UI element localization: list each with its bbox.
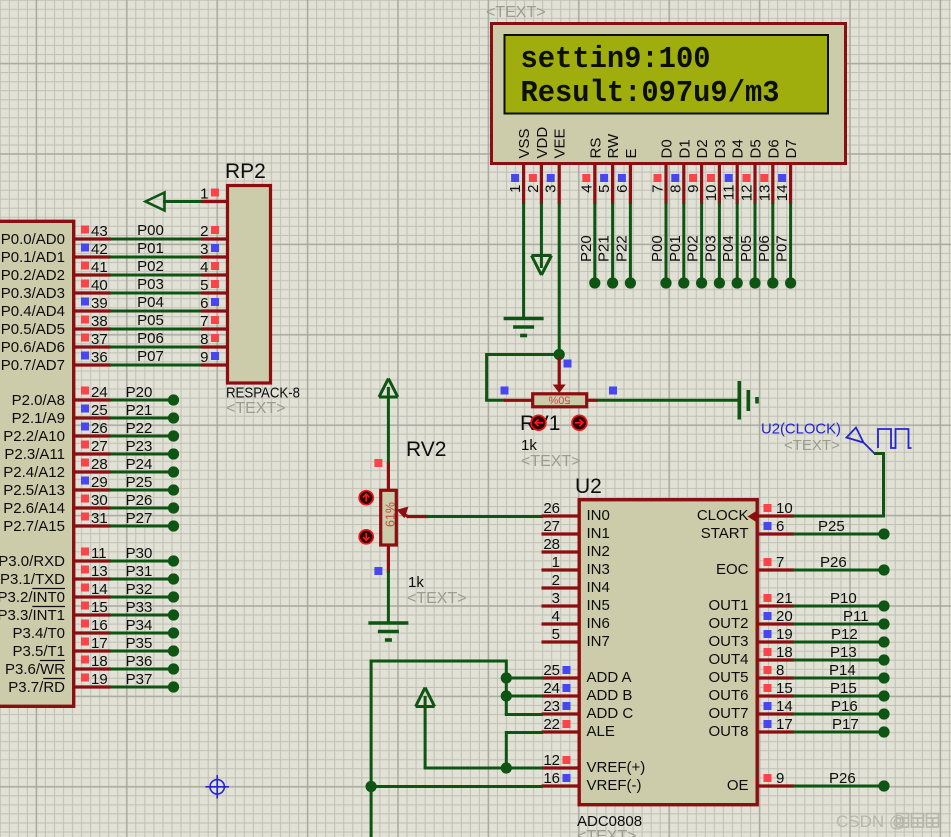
svg-text:P14: P14 (829, 662, 856, 679)
svg-text:RW: RW (605, 133, 622, 159)
wire branch to U2 ADD B (505, 695, 543, 698)
wire net P02 from U1 pin 41 to RP2 pin 4 (110, 258, 202, 275)
U1 pin 14 (P3.2/INT0) (0, 581, 111, 606)
svg-text:P07: P07 (137, 348, 164, 365)
svg-text:1: 1 (507, 185, 524, 193)
U1 pin 41 (P0.2/AD2) (1, 259, 111, 284)
U2 pin 2 (IN4) (542, 572, 610, 596)
wire RP2 pin 1 with input terminal arrow (146, 193, 203, 211)
RP2 pin 2 (200, 223, 226, 240)
svg-text:CSDN @: CSDN @ (836, 812, 906, 831)
wire end junction P32 (168, 591, 179, 602)
LCD module LCD1 body (492, 24, 846, 164)
U2 pin 7 (EOC) (716, 554, 794, 578)
wire LCD pin 7 to net P00 (649, 203, 666, 279)
svg-text:13: 13 (91, 563, 108, 580)
svg-text:ADD A: ADD A (587, 669, 632, 686)
svg-text:OUT1: OUT1 (708, 597, 748, 614)
wire LCD pin 9 to net P02 (685, 203, 702, 279)
resistor pack RP2 body (228, 186, 271, 384)
RP2 pin 7 (200, 313, 226, 330)
U2 pin 9 (OE) (727, 770, 794, 794)
svg-text:17: 17 (776, 716, 793, 733)
wire end junction P14 (U2 OUT5) (878, 672, 889, 683)
svg-text:16: 16 (91, 617, 108, 634)
U2 pin 16 (VREF(-)) (542, 770, 642, 794)
svg-text:12: 12 (543, 752, 560, 769)
svg-text:<TEXT>: <TEXT> (407, 590, 467, 607)
RP2 pin 5 (200, 277, 226, 294)
svg-text:12: 12 (739, 185, 756, 202)
power terminal (VREF+, pointing up) (416, 688, 435, 707)
wire end junction P03 (714, 277, 725, 288)
svg-text:P0.4/AD4: P0.4/AD4 (1, 303, 65, 320)
wire net P35 from U1 pin 17 (110, 635, 170, 652)
wire net P16 from U2 pin 14 (793, 698, 879, 715)
wire net P17 from U2 pin 17 (793, 716, 879, 733)
wire clock generator to U2 CLOCK pin (793, 452, 885, 516)
svg-text:17: 17 (91, 635, 108, 652)
svg-text:P0.0/AD0: P0.0/AD0 (1, 231, 65, 248)
U2 pin 27 (IN1) (542, 518, 610, 542)
svg-text:1: 1 (200, 186, 208, 203)
LCD pin 14 (D7) (774, 139, 800, 204)
svg-text:P3.2/INT0: P3.2/INT0 (0, 589, 65, 606)
RP2 pin 6 (200, 295, 226, 312)
svg-text:P2.6/A14: P2.6/A14 (3, 500, 65, 517)
svg-text:D4: D4 (730, 139, 747, 158)
U2 pin 10 (CLOCK) (697, 500, 794, 524)
svg-text:27: 27 (91, 438, 108, 455)
wire net P07 from U1 pin 36 to RP2 pin 9 (110, 348, 202, 365)
U1 pin 15 (P3.3/INT1) (0, 599, 111, 624)
LCD pin 13 (D6) (756, 139, 782, 204)
svg-text:IN3: IN3 (587, 561, 610, 578)
wire LCD pin 6 to net P22 (613, 203, 630, 279)
svg-text:4: 4 (200, 259, 208, 276)
svg-text:P0.5/AD5: P0.5/AD5 (1, 321, 65, 338)
U1 pin 18 (P3.6/WR) (5, 653, 111, 678)
ground (RV1, rotated right) (739, 381, 757, 420)
svg-text:EOC: EOC (716, 561, 749, 578)
svg-text:CLOCK: CLOCK (697, 507, 749, 524)
svg-text:P05: P05 (137, 312, 164, 329)
svg-text:8: 8 (776, 662, 784, 679)
svg-text:D2: D2 (694, 139, 711, 158)
svg-text:P04: P04 (720, 235, 737, 262)
svg-text:14: 14 (774, 185, 791, 202)
svg-text:P0.7/AD7: P0.7/AD7 (1, 357, 65, 374)
svg-text:RP2: RP2 (225, 160, 266, 183)
LCD pin 11 (D4) (721, 139, 747, 204)
wire net P24 from U1 pin 28 (110, 456, 170, 473)
wire net P26 from U2 pin 9 (793, 770, 879, 787)
svg-text:P33: P33 (126, 599, 153, 616)
svg-text:8: 8 (667, 185, 684, 193)
RP2 pin 1 (200, 186, 226, 203)
svg-text:P3.1/TXD: P3.1/TXD (0, 571, 65, 588)
svg-text:1k: 1k (408, 574, 424, 591)
wire end junction P24 (168, 466, 179, 477)
wire LCD pin 2 (VDD) to power (540, 203, 543, 256)
svg-text:61%: 61% (383, 502, 397, 527)
U1 pin 30 (P2.6/A14) (3, 492, 111, 517)
svg-text:P21: P21 (596, 235, 613, 262)
RV2 down button (359, 530, 373, 544)
svg-text:D3: D3 (712, 139, 729, 158)
U1 pin 38 (P0.5/AD5) (1, 313, 111, 338)
svg-text:P34: P34 (126, 617, 153, 634)
svg-text:9: 9 (200, 349, 208, 366)
svg-text:28: 28 (91, 456, 108, 473)
LCD screen (505, 35, 829, 114)
RP2 pin 4 (200, 259, 226, 276)
U2 pin 19 (OUT3) (708, 626, 794, 650)
svg-text:P00: P00 (649, 235, 666, 262)
U1 pin 31 (P2.7/A15) (3, 510, 111, 535)
svg-text:P2.1/A9: P2.1/A9 (12, 410, 65, 427)
wire net ADD bus: top run (370, 660, 507, 837)
wire net P12 from U2 pin 19 (793, 626, 879, 643)
svg-text:2: 2 (525, 185, 542, 193)
wire net P25 from U1 pin 29 (110, 474, 170, 491)
svg-text:P23: P23 (126, 438, 153, 455)
wire vertical to ADD pins (505, 660, 508, 715)
svg-text:P2.2/A10: P2.2/A10 (3, 428, 65, 445)
svg-text:P30: P30 (126, 545, 153, 562)
svg-text:VEE: VEE (552, 128, 569, 158)
svg-text:11: 11 (91, 545, 107, 562)
svg-text:D6: D6 (765, 139, 782, 158)
svg-text:P11: P11 (843, 608, 869, 625)
svg-text:P17: P17 (832, 716, 859, 733)
svg-text:19: 19 (776, 626, 793, 643)
svg-text:IN1: IN1 (587, 525, 610, 542)
wire end junction P06 (767, 277, 778, 288)
svg-text:23: 23 (543, 698, 560, 715)
U1 pin 16 (P3.4/T0) (12, 617, 111, 642)
svg-text:43: 43 (91, 223, 108, 240)
U1 pin 25 (P2.1/A9) (12, 402, 111, 427)
svg-text:E: E (623, 148, 640, 158)
wire net P25 from U2 pin 6 (793, 518, 879, 535)
wire LCD pin 13 to net P06 (756, 203, 773, 279)
clock generator symbol (847, 428, 912, 454)
svg-text:P37: P37 (126, 671, 153, 688)
power terminal (RV2 top, pointing up) (379, 379, 398, 398)
wire LCD pin 12 to net P05 (738, 203, 755, 279)
wire net P33 from U1 pin 15 (110, 599, 170, 616)
wire end junction P11 (U2 OUT2) (878, 618, 889, 629)
potentiometer RV2 body (381, 490, 397, 545)
wire branch to U2 ADD C (505, 713, 543, 716)
svg-text:9: 9 (776, 770, 784, 787)
svg-text:24: 24 (91, 384, 108, 401)
LCD pin 12 (D5) (739, 139, 765, 204)
svg-text:<TEXT>: <TEXT> (486, 4, 546, 21)
wire RV2 terminal 2 to ground (387, 571, 390, 622)
svg-text:P0.6/AD6: P0.6/AD6 (1, 339, 65, 356)
svg-text:5: 5 (552, 626, 560, 643)
U1 pin 40 (P0.3/AD3) (1, 277, 111, 302)
wire end junction P26 (U2 OE) (878, 780, 889, 791)
svg-text:6: 6 (200, 295, 208, 312)
svg-text:IN4: IN4 (587, 579, 610, 596)
svg-text:36: 36 (91, 349, 108, 366)
svg-text:30: 30 (91, 492, 108, 509)
wire end junction P27 (168, 520, 179, 531)
U2 pin 4 (IN6) (542, 608, 610, 632)
svg-text:P36: P36 (126, 653, 153, 670)
U1 pin 17 (P3.5/T1) (12, 635, 111, 660)
svg-text:IN7: IN7 (587, 633, 610, 650)
svg-text:ADD C: ADD C (587, 705, 634, 722)
wire end junction P31 (168, 573, 179, 584)
svg-text:VSS: VSS (516, 128, 533, 158)
svg-text:P07: P07 (774, 235, 791, 262)
svg-text:7: 7 (200, 313, 208, 330)
svg-text:P00: P00 (137, 222, 164, 239)
wire end junction P16 (U2 OUT7) (878, 708, 889, 719)
U2 pin 12 (VREF(+)) (542, 752, 646, 776)
svg-text:13: 13 (756, 185, 773, 202)
U2 pin 17 (OUT8) (708, 716, 794, 740)
U1 pin 28 (P2.4/A12) (3, 456, 111, 481)
wire net P01 from U1 pin 42 to RP2 pin 3 (110, 240, 202, 257)
RV2 up button (359, 491, 373, 505)
svg-text:OE: OE (727, 777, 749, 794)
U1 pin 27 (P2.3/A11) (4, 438, 111, 463)
svg-text:P06: P06 (756, 235, 773, 262)
junction ADD A (501, 672, 512, 683)
LCD pin 8 (D1) (667, 139, 693, 204)
LCD pin 4 (RS) (578, 138, 604, 204)
svg-text:11: 11 (721, 185, 738, 201)
svg-text:P02: P02 (137, 258, 164, 275)
svg-text:OUT2: OUT2 (708, 615, 748, 632)
svg-text:P10: P10 (830, 590, 857, 607)
svg-text:OUT6: OUT6 (708, 687, 748, 704)
svg-text:10: 10 (703, 185, 720, 202)
RP2 pin 9 (200, 349, 226, 366)
U2 pin 14 (OUT7) (708, 698, 794, 722)
svg-text:P26: P26 (126, 492, 153, 509)
U2 pin 20 (OUT2) (708, 608, 794, 632)
U1 pin 11 (P3.0/RXD) (0, 545, 111, 570)
wire net P00 from U1 pin 43 to RP2 pin 2 (110, 222, 202, 239)
svg-text:31: 31 (91, 510, 108, 527)
wire net P05 from U1 pin 38 to RP2 pin 7 (110, 312, 202, 329)
potentiometer RV2 pin 2 stub (387, 545, 390, 573)
svg-text:1: 1 (552, 554, 560, 571)
U1 pin 42 (P0.1/AD1) (1, 241, 111, 266)
svg-text:3: 3 (543, 185, 560, 193)
svg-text:OUT4: OUT4 (708, 651, 748, 668)
svg-text:P01: P01 (137, 240, 164, 257)
U1 pin 39 (P0.4/AD4) (1, 295, 111, 320)
svg-text:OUT5: OUT5 (708, 669, 748, 686)
wire LCD pin 8 to net P01 (667, 203, 684, 279)
wire end junction P37 (168, 681, 179, 692)
svg-text:25: 25 (91, 402, 108, 419)
microcontroller U1 (8051) body, partially off-screen (0, 221, 74, 706)
svg-text:22: 22 (543, 716, 560, 733)
wire end junction P35 (168, 645, 179, 656)
wire end junction P13 (U2 OUT4) (878, 654, 889, 665)
U2 pin 24 (ADD B) (542, 680, 633, 704)
U1 pin 13 (P3.1/TXD) (0, 563, 111, 588)
wire net P31 from U1 pin 13 (110, 563, 170, 580)
svg-text:U2(CLOCK): U2(CLOCK) (761, 421, 841, 438)
svg-text:IN5: IN5 (587, 597, 610, 614)
LCD pin 2 (VDD) (525, 127, 551, 204)
wire LCD pin 10 to net P03 (702, 203, 719, 279)
wire net P26 from U2 pin 7 (793, 554, 879, 571)
wire end junction P10 (U2 OUT1) (878, 600, 889, 611)
wire net P36 from U1 pin 18 (110, 653, 170, 670)
wire end junction P21 (607, 277, 618, 288)
svg-text:ALE: ALE (587, 723, 615, 740)
wire RV1 loop: junction to RV1 terminal 1 (485, 353, 559, 400)
wire end junction P02 (696, 277, 707, 288)
svg-text:P2.0/A8: P2.0/A8 (12, 392, 65, 409)
wire end junction P00 (660, 277, 671, 288)
U2 pin 23 (ADD C) (542, 698, 634, 722)
LCD pin 9 (D2) (685, 139, 711, 204)
wire net P04 from U1 pin 39 to RP2 pin 6 (110, 294, 202, 311)
svg-text:19: 19 (91, 671, 108, 688)
svg-text:29: 29 (91, 474, 108, 491)
wire end junction P36 (168, 663, 179, 674)
LCD pin 5 (RW) (596, 133, 622, 204)
wire end junction P26 (168, 502, 179, 513)
svg-text:P22: P22 (126, 420, 153, 437)
wire end junction P34 (168, 627, 179, 638)
svg-text:15: 15 (776, 680, 793, 697)
svg-text:OUT8: OUT8 (708, 723, 748, 740)
potentiometer RV1 pin 2 stub (587, 399, 598, 402)
wire net P10 from U2 pin 21 (793, 590, 879, 607)
svg-text:P20: P20 (578, 235, 595, 262)
wire end junction P05 (749, 277, 760, 288)
wire power to RV2 terminal 1 (387, 397, 390, 465)
svg-text:6: 6 (614, 185, 631, 193)
svg-text:3: 3 (200, 241, 208, 258)
svg-text:42: 42 (91, 241, 108, 258)
svg-text:P12: P12 (831, 626, 858, 643)
wire LCD pin 5 to net P21 (596, 203, 613, 279)
svg-text:P03: P03 (702, 235, 719, 262)
wire net P13 from U2 pin 18 (793, 644, 879, 661)
svg-text:1k: 1k (521, 437, 537, 454)
svg-text:18: 18 (91, 653, 108, 670)
wire net P15 from U2 pin 15 (793, 680, 879, 697)
wire LCD pin 4 to net P20 (578, 203, 595, 279)
wire net P27 from U1 pin 31 (110, 510, 170, 527)
svg-text:P3.7/RD: P3.7/RD (8, 679, 65, 696)
svg-text:27: 27 (543, 518, 560, 535)
svg-text:VREF(+): VREF(+) (587, 759, 646, 776)
wire end junction P30 (168, 555, 179, 566)
svg-text:5: 5 (596, 185, 613, 193)
svg-text:4: 4 (578, 185, 595, 193)
wire net P21 from U1 pin 25 (110, 402, 170, 419)
svg-text:P0.3/AD3: P0.3/AD3 (1, 285, 65, 302)
svg-text:14: 14 (91, 581, 108, 598)
svg-text:<TEXT>: <TEXT> (226, 400, 286, 417)
svg-text:IN2: IN2 (587, 543, 610, 560)
origin marker (blue crosshair) (206, 775, 229, 798)
wire end junction P04 (732, 277, 743, 288)
svg-text:P03: P03 (137, 276, 164, 293)
svg-text:<TEXT>: <TEXT> (577, 828, 637, 837)
U2 pin 21 (OUT1) (708, 590, 794, 614)
U2 pin 25 (ADD A) (542, 662, 632, 686)
potentiometer RV1 pin 1 stub (504, 399, 532, 402)
U1 pin 43 (P0.0/AD0) (1, 223, 111, 248)
svg-text:10: 10 (776, 500, 793, 517)
RV1 terminal 1 state square (501, 387, 509, 395)
svg-text:2: 2 (552, 572, 560, 589)
wire net P14 from U2 pin 8 (793, 662, 879, 679)
svg-text:P3.3/INT1: P3.3/INT1 (0, 607, 65, 624)
svg-text:P15: P15 (830, 680, 857, 697)
RP2 pin 3 (200, 241, 226, 258)
svg-text:26: 26 (543, 500, 560, 517)
svg-text:D1: D1 (676, 139, 693, 158)
svg-text:50%: 50% (548, 393, 570, 405)
wire U2 ALE to VREF(+) node (506, 731, 543, 768)
svg-text:VREF(-): VREF(-) (587, 777, 642, 794)
svg-text:P24: P24 (126, 456, 153, 473)
wire RV2 wiper to U2 IN0 (426, 515, 543, 518)
potentiometer RV1 body (533, 394, 587, 407)
svg-text:IN6: IN6 (587, 615, 610, 632)
svg-text:P2.5/A13: P2.5/A13 (3, 482, 65, 499)
ground (RV2) (368, 623, 408, 640)
svg-text:26: 26 (91, 420, 108, 437)
svg-text:P16: P16 (831, 698, 858, 715)
svg-text:Result:097u9/m3: Result:097u9/m3 (521, 77, 780, 111)
wire U2 VREF(-) to left vertical net (371, 785, 543, 788)
svg-text:P21: P21 (126, 402, 153, 419)
svg-text:P2.7/A15: P2.7/A15 (3, 518, 65, 535)
svg-text:OUT3: OUT3 (708, 633, 748, 650)
U2 pin 3 (IN5) (542, 590, 610, 614)
svg-text:P3.6/WR: P3.6/WR (5, 661, 65, 678)
wire net P30 from U1 pin 11 (110, 545, 170, 562)
svg-text:P13: P13 (830, 644, 857, 661)
svg-text:P04: P04 (137, 294, 164, 311)
svg-text:P25: P25 (126, 474, 153, 491)
svg-text:D0: D0 (659, 139, 676, 158)
potentiometer RV2 pin 1 stub (387, 462, 390, 490)
svg-text:P32: P32 (126, 581, 153, 598)
LCD pin 7 (D0) (650, 139, 676, 204)
wire end junction P20 (168, 394, 179, 405)
svg-text:ADD B: ADD B (587, 687, 633, 704)
RP2 pin 8 (200, 331, 226, 348)
wire LCD pin 1 (VSS) to ground (522, 203, 525, 318)
U1 pin 26 (P2.2/A10) (3, 420, 111, 445)
svg-text:<TEXT>: <TEXT> (784, 437, 840, 454)
U2 pin 18 (OUT4) (708, 644, 794, 668)
wire end junction P07 (785, 277, 796, 288)
LCD pin 3 (VEE) (543, 128, 569, 204)
U1 pin 36 (P0.7/AD7) (1, 349, 111, 374)
svg-text:IN0: IN0 (587, 507, 610, 524)
wire net P37 from U1 pin 19 (110, 671, 170, 688)
